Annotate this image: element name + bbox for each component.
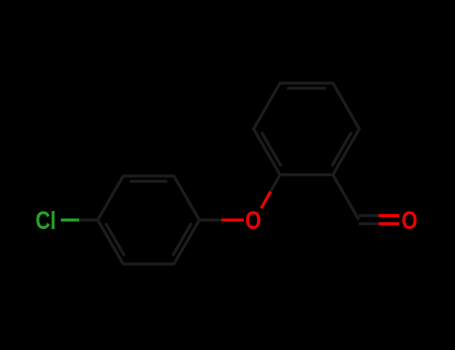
carbonyl C=O double bond (red halves) [379, 214, 399, 217]
bond C1'-CHO (carbon) [333, 175, 359, 220]
ring1 benzene (chlorophenyl) [98, 176, 200, 264]
ring2 inner double bond A-W [262, 132, 282, 166]
ring2 inner double bond NW-NE [287, 87, 326, 90]
bond O-C2' (red half) [261, 192, 270, 209]
bond C1-O ether (carbon half) [199, 219, 221, 222]
bond C1-O ether (red half) [221, 219, 243, 222]
ring1 inner double bond R-BR [173, 223, 192, 256]
bond Cl-C4 (green half) [61, 219, 80, 222]
svg-text:O: O [402, 207, 418, 235]
svg-text:O: O [245, 207, 261, 235]
bond Cl-C4 (carbon half) [79, 219, 98, 222]
bond O-C2' (carbon half) [271, 175, 280, 192]
ring2 inner double bond E-B [332, 132, 352, 166]
ring2 benzene (benzaldehyde ring) [254, 83, 360, 175]
ring1 inner double bond BL-L [106, 223, 125, 256]
ring1 inner double bond TL-TR [130, 180, 168, 183]
carbonyl C=O double bond (carbon halves) [359, 214, 379, 217]
svg-text:Cl: Cl [36, 207, 57, 235]
